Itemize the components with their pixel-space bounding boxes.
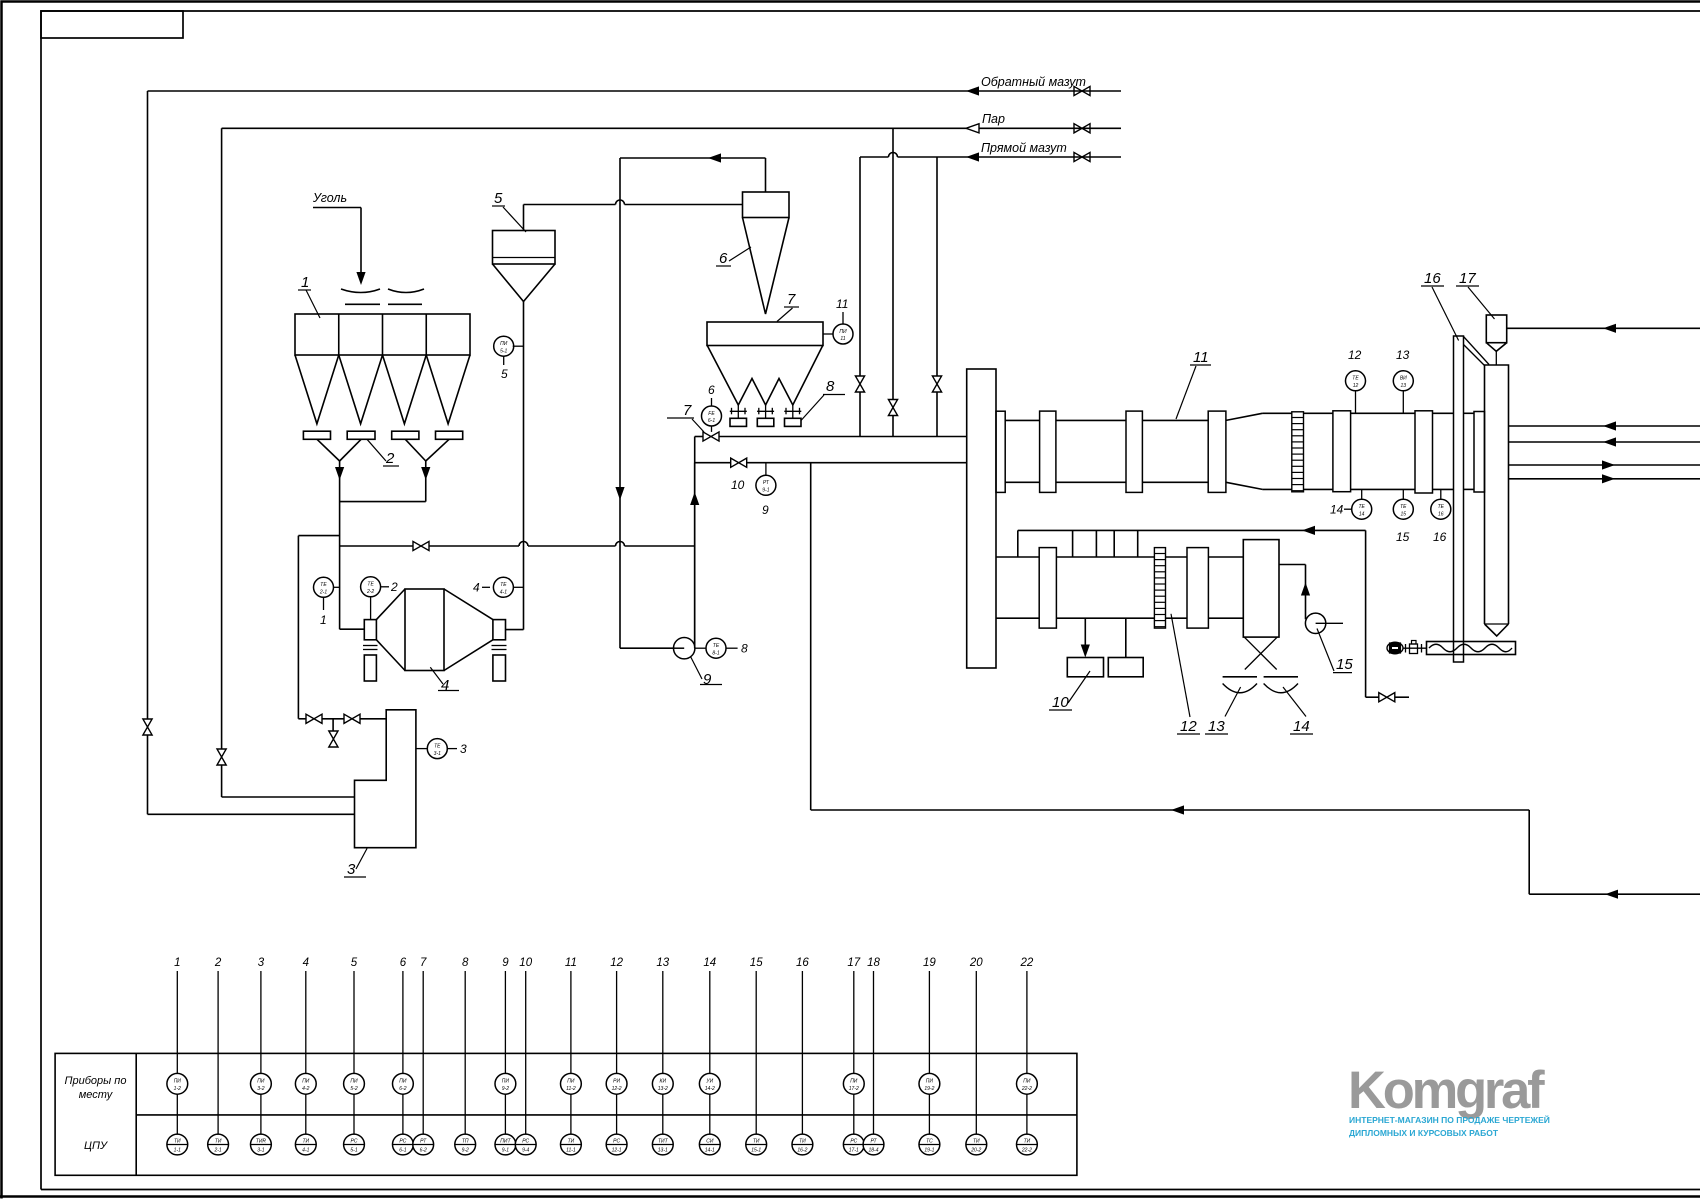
svg-text:ТЕ: ТЕ <box>1359 504 1366 510</box>
cooler air line <box>1018 529 1366 531</box>
label Прямой мазут <box>981 141 1067 155</box>
svg-text:ДИПЛОМНЫХ И КУРСОВЫХ РАБОТ: ДИПЛОМНЫХ И КУРСОВЫХ РАБОТ <box>1349 1128 1499 1138</box>
pipe line steam y128 <box>222 127 1121 129</box>
table frame <box>55 1053 1077 1175</box>
label 7 hopper <box>777 291 799 322</box>
dust box 10 left <box>1067 658 1103 677</box>
svg-text:ПИТ: ПИТ <box>500 1139 511 1145</box>
svg-text:11: 11 <box>836 297 848 311</box>
svg-text:1: 1 <box>301 274 309 291</box>
instrument 11 on hopper 7 <box>823 297 853 344</box>
label 8 <box>801 378 845 421</box>
coal feed arrow <box>356 272 365 285</box>
instrument 6 above valve <box>702 383 722 432</box>
valve return-mazut <box>1074 86 1090 95</box>
flow arrow hopper 17 feed <box>1603 324 1616 333</box>
flow arrow return gas <box>1171 805 1184 814</box>
svg-text:ПИ: ПИ <box>502 1079 510 1085</box>
label 10 <box>1049 671 1090 711</box>
label 1 <box>298 274 320 318</box>
svg-text:ТЕ: ТЕ <box>367 582 374 588</box>
instrument stem 10 <box>515 957 536 1155</box>
valve on drop x860 <box>855 376 864 392</box>
svg-text:12: 12 <box>1348 348 1362 362</box>
chute arc right <box>388 289 424 293</box>
svg-text:14: 14 <box>1293 718 1310 735</box>
svg-text:4-2: 4-2 <box>302 1086 309 1092</box>
svg-text:ВИ: ВИ <box>1400 376 1407 382</box>
valve cooler air <box>1379 693 1395 702</box>
svg-text:ТП: ТП <box>462 1139 469 1145</box>
svg-text:ЦПУ: ЦПУ <box>84 1140 108 1152</box>
mill left bearing lines <box>363 646 378 650</box>
conveyor motor <box>1387 642 1403 654</box>
cooler tyre 2 <box>1187 548 1208 629</box>
svg-text:22-2: 22-2 <box>1021 1086 1032 1092</box>
coal drop line right <box>340 461 426 502</box>
svg-text:ПИ: ПИ <box>567 1079 575 1085</box>
svg-text:22-2: 22-2 <box>1021 1148 1032 1154</box>
flow arrow cyclone6 outlet <box>708 153 721 162</box>
rotary feeder b <box>757 405 774 426</box>
svg-text:РТ: РТ <box>870 1139 877 1145</box>
svg-text:6: 6 <box>708 383 715 397</box>
svg-text:9-1: 9-1 <box>762 488 769 494</box>
svg-text:РС: РС <box>850 1139 857 1145</box>
svg-text:ПИ: ПИ <box>926 1079 934 1085</box>
svg-text:15: 15 <box>1336 656 1353 673</box>
svg-text:ТЕ: ТЕ <box>1352 376 1359 382</box>
svg-text:7: 7 <box>683 402 692 419</box>
flow arrow fan 15 <box>1301 583 1310 596</box>
instrument stem 3 <box>251 957 272 1155</box>
svg-text:1-1: 1-1 <box>174 1148 181 1154</box>
hopper 7 cones <box>707 345 823 405</box>
hopper 7 body <box>707 322 823 346</box>
instrument stem 14 <box>699 957 720 1155</box>
svg-text:13: 13 <box>1401 383 1407 389</box>
svg-text:15: 15 <box>750 957 763 969</box>
instrument stem 18 <box>863 957 884 1155</box>
fan discharge riser <box>694 546 696 648</box>
grate line right <box>1264 676 1298 678</box>
svg-text:13: 13 <box>1208 718 1225 735</box>
fan 15 <box>1305 613 1343 633</box>
svg-text:1: 1 <box>174 957 180 969</box>
dust drop left <box>1084 618 1086 646</box>
svg-text:5-2: 5-2 <box>350 1086 357 1092</box>
svg-text:19-1: 19-1 <box>924 1148 934 1154</box>
mill left cone <box>376 589 405 671</box>
flow arrow vent up <box>690 492 699 505</box>
screw conveyor trough <box>1427 642 1516 655</box>
svg-text:4: 4 <box>441 677 449 694</box>
instrument stem 6 <box>393 957 414 1155</box>
instrument 14 under kiln <box>1330 489 1372 519</box>
instrument stem 12 <box>606 957 627 1155</box>
pipe drop direct-mazut x937 <box>936 157 938 437</box>
svg-text:ТЕ: ТЕ <box>713 643 720 649</box>
feeder 2 box c <box>392 431 419 439</box>
svg-text:12: 12 <box>1180 718 1197 735</box>
svg-text:4: 4 <box>303 957 309 969</box>
table row label panel <box>84 1140 108 1152</box>
svg-text:ПИ: ПИ <box>350 1079 358 1085</box>
svg-text:ТИ: ТИ <box>973 1139 980 1145</box>
instrument stem 19 <box>919 957 940 1155</box>
svg-text:18-4: 18-4 <box>868 1148 878 1154</box>
svg-text:4: 4 <box>473 581 480 595</box>
instrument 1 at mill inlet <box>314 577 340 627</box>
dust drop right <box>1125 618 1127 657</box>
conveyor gearbox <box>1410 641 1418 654</box>
label 15 fan <box>1317 629 1353 674</box>
svg-text:ПИ: ПИ <box>839 329 847 335</box>
svg-text:ТЕ: ТЕ <box>1400 504 1407 510</box>
instrument stem 11 <box>561 957 582 1155</box>
pipe drop direct-mazut x860 <box>859 157 861 437</box>
label 9 fan <box>691 657 723 689</box>
mill right journal <box>493 620 506 640</box>
svg-text:11: 11 <box>840 336 845 342</box>
cooling shaft cone <box>1485 624 1509 636</box>
svg-text:9-2: 9-2 <box>502 1086 509 1092</box>
feed line to hopper 17 <box>1507 327 1700 329</box>
svg-text:13: 13 <box>656 957 669 969</box>
cooler girth gear <box>1154 548 1165 629</box>
svg-text:2-2: 2-2 <box>366 589 374 595</box>
svg-text:16: 16 <box>1424 270 1441 287</box>
dust drop arrow <box>1081 645 1090 658</box>
svg-text:20-2: 20-2 <box>970 1148 981 1154</box>
chute line right <box>388 303 422 305</box>
instrument stem 22 <box>1017 957 1038 1155</box>
svg-text:13: 13 <box>1396 348 1410 362</box>
coal drop arrow right <box>421 467 430 480</box>
svg-text:ПИ: ПИ <box>850 1079 858 1085</box>
svg-text:1: 1 <box>320 613 327 627</box>
label 4 <box>430 667 459 694</box>
cooler air line drop <box>1366 530 1409 697</box>
svg-text:5-1: 5-1 <box>350 1148 357 1154</box>
svg-text:ТС: ТС <box>926 1139 933 1145</box>
dust box 10 right <box>1108 658 1143 677</box>
instrument stem 13 <box>652 957 673 1155</box>
instrument 2 at mill bearing <box>361 577 398 620</box>
cyclone 6 body <box>743 192 790 218</box>
label 7 valve <box>667 402 704 432</box>
motor shaft <box>1403 644 1427 653</box>
svg-text:4-1: 4-1 <box>500 590 507 596</box>
svg-text:9: 9 <box>762 503 769 517</box>
instrument stem 17 <box>843 957 864 1155</box>
kiln tyre C <box>1208 411 1226 492</box>
label 6 cyclone <box>716 247 751 267</box>
pipe line direct-mazut y157 <box>860 156 1121 158</box>
svg-text:3: 3 <box>347 861 356 878</box>
svg-text:ТЕ: ТЕ <box>1438 504 1445 510</box>
grate arc right <box>1264 684 1298 693</box>
svg-text:3-1: 3-1 <box>434 751 441 757</box>
svg-text:20: 20 <box>969 957 983 969</box>
instrument stem 15 <box>746 957 767 1155</box>
cooler discharge cross <box>1244 637 1278 670</box>
flow arrow return-mazut <box>966 86 979 95</box>
valve direct-mazut <box>1074 152 1090 161</box>
cooler discharge box <box>1243 540 1279 638</box>
svg-text:14-2: 14-2 <box>705 1086 715 1092</box>
flow arrow return gas 2 <box>1605 890 1618 899</box>
flow arrow direct-mazut <box>966 152 979 161</box>
cyclone 5 cone <box>493 264 556 302</box>
pipe steam to furnace <box>222 796 355 798</box>
svg-text:FE: FE <box>708 411 715 417</box>
svg-text:Приборы по: Приборы по <box>65 1075 127 1087</box>
svg-text:2-1: 2-1 <box>319 590 327 596</box>
cyclone 5 outlet pipe <box>524 205 743 231</box>
title stamp box top-left <box>41 11 183 38</box>
table row label local <box>65 1075 127 1101</box>
pipe return-mazut to furnace <box>148 813 355 815</box>
hopper 17 funnel <box>1486 343 1506 365</box>
kiln gas line 1 <box>1509 425 1700 427</box>
instrument 16 under kiln <box>1431 489 1451 544</box>
svg-text:1-2: 1-2 <box>174 1086 181 1092</box>
svg-text:9-4: 9-4 <box>522 1148 529 1154</box>
kiln tyre B <box>1126 411 1142 492</box>
bunker hoppers <box>295 355 470 424</box>
svg-text:10: 10 <box>731 478 745 492</box>
svg-text:15-1: 15-1 <box>751 1148 761 1154</box>
instrument stem 8 <box>455 957 476 1155</box>
svg-text:4-1: 4-1 <box>302 1148 309 1154</box>
svg-text:2-1: 2-1 <box>213 1148 221 1154</box>
svg-text:Прямой мазут: Прямой мазут <box>981 141 1067 155</box>
svg-text:ТИ: ТИ <box>302 1139 309 1145</box>
kiln head chamber <box>967 369 996 668</box>
duct left wall <box>694 437 696 649</box>
kiln shell section 1 <box>1005 420 1226 482</box>
svg-text:5: 5 <box>351 957 358 969</box>
svg-text:7: 7 <box>787 291 796 308</box>
svg-text:3: 3 <box>258 957 265 969</box>
svg-text:5-1: 5-1 <box>500 348 507 354</box>
cooling shaft body <box>1485 365 1509 624</box>
svg-text:15: 15 <box>1396 530 1410 544</box>
valve on drop x937 <box>932 376 941 392</box>
exhaust downcomer x620 <box>620 158 675 648</box>
svg-text:РИ: РИ <box>613 1079 620 1085</box>
svg-text:11-1: 11-1 <box>566 1148 576 1154</box>
rotary feeder c <box>784 405 801 426</box>
svg-text:5: 5 <box>501 367 508 381</box>
label 11 kiln <box>1176 349 1211 419</box>
chute line left <box>345 303 380 305</box>
svg-text:8: 8 <box>826 378 835 395</box>
furnace 3 body <box>355 710 416 848</box>
svg-text:19: 19 <box>923 957 936 969</box>
svg-text:14: 14 <box>1330 503 1344 517</box>
label 16 shaft <box>1421 270 1459 341</box>
svg-text:11: 11 <box>1193 349 1209 366</box>
label Уголь <box>312 191 347 205</box>
svg-text:ТИ: ТИ <box>215 1139 222 1145</box>
svg-text:6-1: 6-1 <box>399 1148 406 1154</box>
coal feed line <box>313 208 361 277</box>
label 13 grate <box>1205 687 1241 735</box>
svg-text:6-2: 6-2 <box>399 1086 406 1092</box>
svg-text:УИ: УИ <box>706 1079 713 1085</box>
svg-text:9: 9 <box>703 671 712 688</box>
label 10 valve <box>731 478 745 492</box>
svg-text:12-1: 12-1 <box>612 1148 622 1154</box>
valve on vent line <box>413 541 429 550</box>
instrument 15 under kiln <box>1393 489 1413 544</box>
instrument stem 1 <box>167 957 188 1155</box>
svg-text:Уголь: Уголь <box>312 191 347 205</box>
cyclone 5 body <box>493 231 556 265</box>
svg-text:КИ: КИ <box>660 1079 667 1085</box>
svg-text:17: 17 <box>847 957 860 969</box>
fan 9 <box>674 638 695 659</box>
svg-text:17-1: 17-1 <box>849 1148 859 1154</box>
svg-text:ТИ: ТИ <box>568 1139 575 1145</box>
svg-text:5: 5 <box>494 190 503 207</box>
svg-text:3-2: 3-2 <box>257 1086 264 1092</box>
svg-text:11-2: 11-2 <box>566 1086 576 1092</box>
svg-text:6: 6 <box>719 250 728 267</box>
flow arrow air 1 <box>1602 460 1615 469</box>
instrument stem 20 <box>966 957 987 1155</box>
fan 15 discharge <box>1279 565 1306 620</box>
mill right pedestal <box>493 655 506 681</box>
kiln air line 2 <box>1509 478 1700 480</box>
duct bottom line <box>695 462 967 464</box>
coal drop line left <box>339 461 341 629</box>
instrument 4 at mill outlet <box>473 577 524 597</box>
instrument stem 9 <box>495 957 516 1155</box>
valve steam <box>1074 124 1090 133</box>
instrument 12 on kiln <box>1346 348 1366 413</box>
kiln tyre E <box>1415 411 1433 493</box>
svg-text:РТ: РТ <box>420 1139 427 1145</box>
svg-text:12: 12 <box>610 957 623 969</box>
svg-text:17: 17 <box>1459 270 1476 287</box>
svg-text:ТИR: ТИR <box>256 1139 267 1145</box>
mill left journal <box>364 620 376 640</box>
svg-text:ТИ: ТИ <box>753 1139 760 1145</box>
feeder collect left <box>317 439 361 461</box>
svg-text:Обратный мазут: Обратный мазут <box>981 75 1086 89</box>
return gas line bottom <box>811 809 1529 811</box>
svg-text:15: 15 <box>1401 511 1407 517</box>
svg-text:16: 16 <box>1438 511 1444 517</box>
valve furnace inlet 2 <box>344 714 360 723</box>
valve furnace inlet 1 <box>306 714 322 723</box>
svg-text:9: 9 <box>502 957 509 969</box>
svg-text:14: 14 <box>1359 511 1365 517</box>
svg-text:2: 2 <box>390 580 398 594</box>
svg-text:14: 14 <box>703 957 716 969</box>
valve on riser x221 <box>217 749 226 765</box>
svg-text:12-2: 12-2 <box>612 1086 622 1092</box>
svg-text:РТ: РТ <box>763 480 770 486</box>
svg-text:ТИ: ТИ <box>799 1139 806 1145</box>
kiln tyre D <box>1333 411 1351 492</box>
svg-text:ТЕ: ТЕ <box>434 743 441 749</box>
mill vent riser <box>694 463 696 546</box>
svg-text:6-1: 6-1 <box>708 418 715 424</box>
svg-text:ПИ: ПИ <box>399 1079 407 1085</box>
instrument 13 on kiln <box>1393 348 1413 413</box>
svg-text:16: 16 <box>1433 530 1447 544</box>
kiln air line 1 <box>1509 464 1700 466</box>
svg-text:18: 18 <box>867 957 880 969</box>
kiln shell section 2 <box>1262 413 1474 489</box>
svg-text:ПИ: ПИ <box>302 1079 310 1085</box>
cyclone 5 dust line <box>506 302 524 630</box>
svg-text:месту: месту <box>79 1089 114 1101</box>
svg-text:РС: РС <box>522 1139 529 1145</box>
instrument stem 5 <box>344 957 365 1155</box>
cooler shelf <box>1018 530 1138 557</box>
svg-text:16-2: 16-2 <box>797 1148 807 1154</box>
flow arrow air 2 <box>1602 474 1615 483</box>
line hop direct-mazut over x893 <box>889 153 898 158</box>
hop vent over x523.5 <box>519 542 528 547</box>
feeder 2 box a <box>303 431 330 439</box>
svg-text:2: 2 <box>385 450 395 467</box>
label 5 cyclone <box>492 190 526 232</box>
grate arc left <box>1223 684 1257 693</box>
valve on riser x147 <box>143 719 152 735</box>
label 3 <box>344 849 367 879</box>
svg-text:ПИ: ПИ <box>257 1079 265 1085</box>
svg-text:РС: РС <box>399 1139 406 1145</box>
bunker 1 body <box>295 314 470 355</box>
label 14 grate <box>1283 687 1313 735</box>
furnace inlet line with valves <box>298 718 386 720</box>
svg-text:ТИ: ТИ <box>1024 1139 1031 1145</box>
svg-text:3: 3 <box>460 742 467 756</box>
kiln girth gear <box>1292 412 1304 492</box>
svg-text:16: 16 <box>796 957 809 969</box>
svg-text:ТЕ: ТЕ <box>500 582 507 588</box>
pipe riser steam x221 <box>221 128 223 797</box>
mill feed elbow <box>340 628 365 630</box>
cyclone 6 cone <box>743 218 790 315</box>
flow arrow gas 2 <box>1603 437 1616 446</box>
drain stub <box>332 719 334 731</box>
svg-text:10: 10 <box>519 957 532 969</box>
svg-text:13-1: 13-1 <box>658 1148 668 1154</box>
svg-text:Komgraf: Komgraf <box>1348 1061 1545 1120</box>
svg-text:ТЕ: ТЕ <box>320 582 327 588</box>
instrument 9 below duct <box>756 463 776 517</box>
label 17 hopper <box>1456 270 1495 319</box>
hop vent over x620 <box>616 542 625 547</box>
svg-text:7: 7 <box>420 957 427 969</box>
svg-text:6-2: 6-2 <box>420 1148 427 1154</box>
svg-text:13-2: 13-2 <box>658 1086 668 1092</box>
flow arrow gas 1 <box>1603 421 1616 430</box>
svg-text:ПИ: ПИ <box>174 1079 182 1085</box>
svg-text:ПИ: ПИ <box>1023 1079 1031 1085</box>
pipe steam drop x893 <box>892 128 894 436</box>
flow arrow cooler air <box>1302 526 1315 535</box>
bypass branch to furnace line <box>298 536 339 719</box>
svg-text:ИНТЕРНЕТ-МАГАЗИН ПО ПРОДАЖЕ ЧЕ: ИНТЕРНЕТ-МАГАЗИН ПО ПРОДАЖЕ ЧЕРТЕЖЕЙ <box>1349 1114 1550 1125</box>
